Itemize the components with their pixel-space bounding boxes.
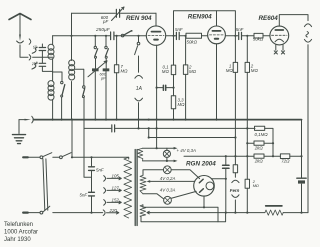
svg-text:MΩ: MΩ — [121, 69, 129, 74]
svg-text:pF: pF — [102, 19, 108, 24]
resistor R13 72Ohm — [280, 154, 289, 159]
loudspeaker jack top — [304, 24, 311, 27]
capacitor C5 250uF — [111, 32, 114, 40]
gang capacitor arrow — [88, 61, 107, 77]
mains switch top contact — [40, 156, 43, 159]
node y156 dots — [225, 155, 227, 157]
wire mains feed to primary — [72, 157, 129, 159]
svg-text:Fern: Fern — [230, 188, 240, 193]
coupling coil L3 — [48, 81, 54, 120]
svg-text:50kΩ: 50kΩ — [253, 37, 264, 42]
svg-text:2kΩ: 2kΩ — [254, 145, 264, 150]
W4 center tap arrow — [147, 211, 150, 214]
svg-text:Jahr 1930: Jahr 1930 — [4, 237, 31, 243]
wire Fern column — [234, 138, 236, 178]
switch SW95 — [94, 46, 98, 58]
svg-text:4V 0,2A: 4V 0,2A — [160, 176, 176, 181]
switch SW62 — [61, 81, 65, 97]
resistor R6 1MOhm — [233, 62, 237, 72]
svg-text:MΩ: MΩ — [253, 183, 259, 188]
node grid wire dots — [94, 35, 96, 37]
resistor R5 2MOhm — [183, 65, 187, 75]
tap jack 152 — [104, 200, 106, 206]
wire filament row bottom — [143, 160, 174, 162]
svg-text:MΩ: MΩ — [189, 69, 197, 74]
mains switch top blade — [43, 153, 52, 157]
wire grid line g1 — [53, 35, 147, 37]
loudspeaker coil — [306, 32, 309, 37]
title text block — [4, 222, 38, 243]
gang capacitor C4a — [92, 68, 99, 71]
capacitor C10 electrolytic — [223, 165, 229, 168]
svg-text:127: 127 — [112, 186, 120, 191]
switch SW106 — [105, 46, 109, 58]
svg-text:RE604: RE604 — [259, 15, 279, 22]
headphone jack Fern — [232, 180, 239, 212]
ground bus — [34, 119, 302, 121]
B+ bracket wire — [174, 11, 236, 36]
svg-text:5nF: 5nF — [175, 27, 183, 32]
resistor R12 2kOhm — [254, 154, 264, 158]
wire bottom long row — [150, 212, 308, 214]
antenna coil L1 — [48, 36, 54, 81]
capacitor column 5nF pair — [91, 157, 93, 212]
svg-text:REN 904: REN 904 — [126, 15, 152, 22]
wire antenna tap — [33, 56, 53, 58]
svg-text:MΩ: MΩ — [178, 102, 186, 107]
svg-text:105: 105 — [112, 174, 120, 179]
node bus dots — [52, 119, 54, 121]
transformer secondary W1 — [138, 148, 143, 161]
selector blade S2 — [32, 63, 37, 69]
mains terminal top — [23, 156, 28, 158]
resistor R3 0.1MOhm — [171, 65, 175, 75]
wire y156 row — [184, 155, 302, 157]
rectifier tube V4 RGN2004 — [194, 176, 226, 208]
antenna selector contact B — [29, 55, 31, 60]
ground bus plug — [19, 116, 33, 123]
svg-text:MΩ: MΩ — [251, 68, 259, 73]
arrow plug top — [174, 147, 178, 150]
capacitor C2 antenna series — [39, 63, 45, 66]
loudspeaker jack bottom — [304, 39, 311, 42]
wire R3 branch — [173, 36, 175, 120]
node y128 dots — [148, 119, 150, 121]
tube V3 RE604 — [270, 15, 308, 51]
resistor R1 7MOhm — [114, 36, 118, 120]
svg-text:220: 220 — [109, 208, 118, 213]
wire R7 branch — [246, 36, 248, 213]
fuse plug 1A column — [135, 36, 143, 129]
antenna — [9, 14, 31, 36]
wire left vertical with coil — [71, 13, 73, 119]
gang capacitor C4b — [103, 68, 110, 71]
capacitor C1 antenna series — [39, 48, 45, 51]
svg-text:MΩ: MΩ — [162, 69, 170, 74]
tap wire 152 — [107, 201, 121, 204]
selector blade S1 — [32, 47, 37, 53]
wire x95 branch — [94, 36, 96, 120]
svg-text:4V 0,3A: 4V 0,3A — [160, 188, 176, 193]
wire x72 drop — [71, 120, 73, 158]
tube V1 REN904 — [146, 13, 176, 148]
switch SW83 — [82, 86, 85, 98]
wire heater row bottom — [141, 213, 226, 222]
lamp LP2 — [143, 166, 200, 179]
capacitor C9 in y128 — [112, 125, 115, 132]
tap wire 105 — [107, 177, 121, 180]
wire top B+ left — [72, 12, 157, 14]
wire bus right drop — [301, 120, 303, 213]
svg-text:MΩ: MΩ — [226, 68, 234, 73]
capacitor C8 5nF coupling — [239, 32, 254, 39]
svg-text:2kΩ: 2kΩ — [254, 159, 264, 164]
resistor R11 2kOhm — [254, 141, 264, 145]
wire center tap — [150, 180, 195, 182]
resistor R7 2MOhm — [245, 62, 249, 72]
svg-text:1A: 1A — [136, 86, 143, 92]
node y146 dots — [246, 142, 248, 144]
capacitor C7 grid block — [157, 85, 174, 90]
svg-text:72Ω: 72Ω — [281, 159, 290, 164]
arrow plug bottom — [174, 160, 178, 163]
svg-text:0,1MΩ: 0,1MΩ — [255, 132, 269, 137]
svg-text:1000 Arcofar: 1000 Arcofar — [4, 230, 38, 236]
wire R6 branch — [234, 36, 236, 138]
svg-text:152: 152 — [112, 198, 120, 203]
resistor R2 50kOhm — [186, 33, 208, 38]
winding center tap arrow — [147, 180, 151, 183]
wire speaker column — [307, 45, 309, 213]
switch linkage — [43, 159, 48, 210]
svg-text:Telefunken: Telefunken — [4, 222, 33, 228]
rheostat barretter — [265, 206, 283, 215]
svg-text:5nF: 5nF — [80, 193, 88, 198]
wire y143 row — [247, 142, 273, 144]
tap jack 105 — [104, 176, 106, 182]
tuning coil L2 — [69, 60, 75, 80]
resistor R10 — [233, 165, 237, 173]
resistor R9 0.1MOhm — [255, 126, 274, 156]
wire filament row top — [143, 147, 174, 149]
antenna plug connector — [17, 35, 28, 58]
svg-text:250µF: 250µF — [95, 27, 111, 33]
resistor R14 2MOhm — [245, 179, 249, 188]
wire heater row top — [143, 205, 218, 222]
tap jack 127 — [104, 188, 106, 194]
svg-text:pF: pF — [100, 75, 106, 80]
wire mains bottom — [53, 212, 103, 214]
svg-text:50kΩ: 50kΩ — [187, 40, 198, 45]
transformer secondary W3 — [140, 205, 146, 217]
svg-text:+ 4V 0,3A: + 4V 0,3A — [177, 148, 196, 153]
wire y128 row — [84, 127, 255, 129]
variable capacitor C3 600pF top — [112, 7, 125, 21]
svg-text:5nF: 5nF — [236, 27, 244, 32]
antenna selector contact A — [29, 39, 31, 44]
capacitor C12 5nF — [89, 167, 95, 171]
switch SW grid — [121, 30, 132, 37]
tap jack 220 — [103, 210, 105, 216]
tap wire 127 — [107, 189, 121, 192]
mains terminal bottom — [23, 212, 28, 214]
ground — [13, 120, 26, 144]
transformer core — [135, 150, 137, 226]
lamp LP3 — [143, 191, 196, 204]
wire R5 branch — [185, 36, 187, 120]
wire mains top — [53, 156, 60, 158]
mains switch bottom contact — [40, 211, 43, 214]
resistor R4 3.3MOhm — [171, 96, 175, 109]
mains switch bottom blade — [43, 206, 50, 212]
transformer secondary W2 — [140, 175, 146, 194]
svg-text:5nF: 5nF — [96, 167, 104, 172]
wire x106 branch — [105, 36, 107, 120]
mains switch top blade 2 — [63, 153, 71, 157]
svg-text:REN904: REN904 — [188, 14, 212, 21]
resistor R8 50kOhm — [254, 33, 270, 38]
wire elco column — [225, 156, 227, 212]
svg-text:RGN 2004: RGN 2004 — [186, 160, 216, 167]
wire y137 row — [149, 128, 236, 137]
tap wire 220 — [107, 211, 119, 214]
filament x mark V3a — [274, 51, 277, 54]
coil L2 tap wire — [74, 68, 83, 70]
tube V2 REN904 — [208, 11, 238, 120]
wire capacitor column — [42, 44, 52, 71]
filament x mark V3b — [281, 51, 284, 54]
wire x83 branch — [84, 69, 92, 177]
capacitor C13 5nF — [89, 192, 95, 196]
node mains dots — [71, 156, 73, 158]
lamp LP1 — [163, 148, 170, 161]
wire x62 branch — [53, 72, 62, 120]
mains switch top contact 2 — [60, 156, 63, 159]
transformer primary winding — [124, 157, 132, 218]
capacitor C11 electrolytic output — [297, 178, 306, 183]
capacitor C6 5nF coupling — [176, 32, 186, 39]
